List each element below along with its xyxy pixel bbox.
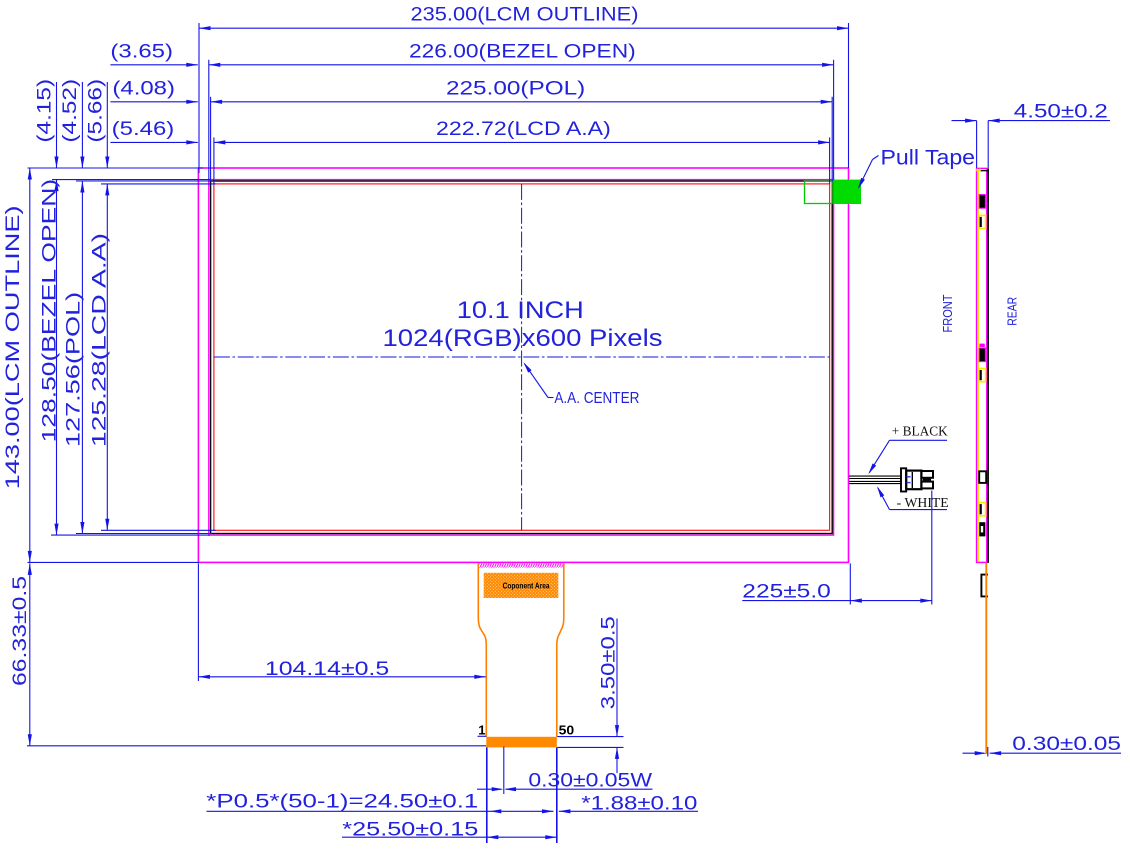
- svg-text:0.30±0.05: 0.30±0.05: [1012, 734, 1121, 755]
- svg-text:1024(RGB)x600 Pixels: 1024(RGB)x600 Pixels: [383, 325, 663, 352]
- svg-text:+ BLACK: + BLACK: [892, 424, 948, 439]
- svg-text:1: 1: [478, 722, 485, 737]
- svg-text:(4.52): (4.52): [60, 79, 81, 143]
- svg-text:- WHITE: - WHITE: [897, 495, 949, 510]
- svg-text:225±5.0: 225±5.0: [742, 582, 831, 603]
- svg-text:3.50±0.5: 3.50±0.5: [599, 616, 620, 709]
- svg-text:127.56(POL): 127.56(POL): [64, 292, 85, 447]
- svg-text:*P0.5*(50-1)=24.50±0.1: *P0.5*(50-1)=24.50±0.1: [206, 792, 478, 813]
- svg-text:143.00(LCM OUTLINE): 143.00(LCM OUTLINE): [3, 205, 24, 489]
- svg-text:225.00(POL): 225.00(POL): [446, 78, 585, 99]
- svg-text:10.1 INCH: 10.1 INCH: [457, 297, 584, 324]
- svg-text:222.72(LCD A.A): 222.72(LCD A.A): [436, 119, 611, 140]
- svg-text:50: 50: [559, 722, 575, 737]
- svg-text:104.14±0.5: 104.14±0.5: [265, 659, 389, 680]
- svg-text:REAR: REAR: [1005, 297, 1020, 326]
- svg-text:0.30±0.05W: 0.30±0.05W: [528, 771, 652, 792]
- svg-text:Pull Tape: Pull Tape: [881, 146, 976, 170]
- svg-text:(5.46): (5.46): [112, 119, 175, 140]
- svg-text:128.50(BEZEL OPEN): 128.50(BEZEL OPEN): [39, 179, 60, 443]
- svg-text:*25.50±0.15: *25.50±0.15: [342, 819, 478, 840]
- svg-text:4.50±0.2: 4.50±0.2: [1014, 102, 1108, 123]
- svg-text:66.33±0.5: 66.33±0.5: [10, 576, 31, 686]
- svg-text:(3.65): (3.65): [110, 41, 173, 62]
- svg-text:*1.88±0.10: *1.88±0.10: [581, 793, 697, 814]
- svg-text:(4.15): (4.15): [34, 79, 55, 143]
- svg-text:A.A. CENTER: A.A. CENTER: [554, 390, 639, 407]
- svg-text:(4.08): (4.08): [112, 78, 175, 99]
- svg-text:(5.66): (5.66): [86, 79, 107, 143]
- svg-text:FRONT: FRONT: [940, 294, 955, 332]
- svg-text:Coponent Area: Coponent Area: [503, 581, 550, 591]
- svg-text:235.00(LCM OUTLINE): 235.00(LCM OUTLINE): [411, 4, 639, 25]
- svg-text:125.28(LCD A.A): 125.28(LCD A.A): [90, 233, 111, 447]
- svg-text:226.00(BEZEL OPEN): 226.00(BEZEL OPEN): [409, 41, 636, 62]
